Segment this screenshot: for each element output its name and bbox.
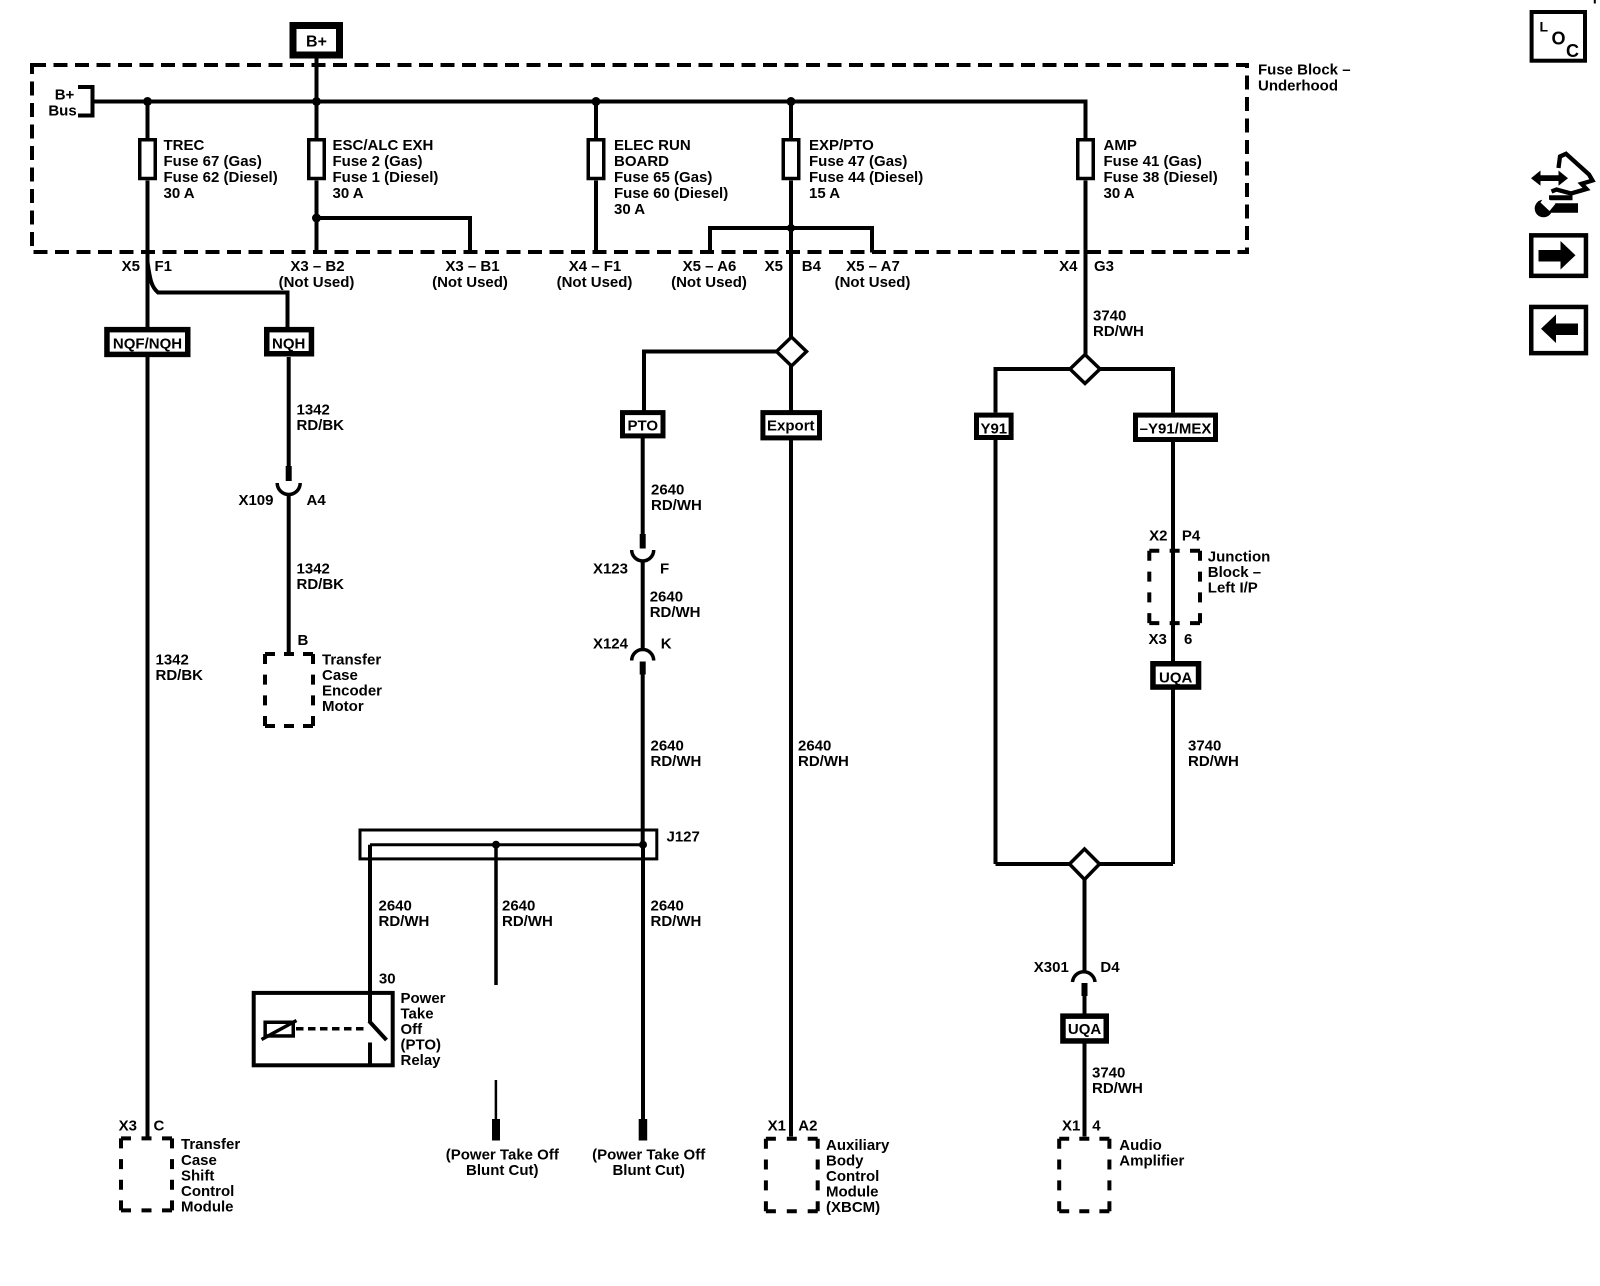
svg-text:(Not Used): (Not Used) <box>671 274 747 291</box>
svg-text:3740: 3740 <box>1092 1065 1125 1082</box>
svg-text:RD/WH: RD/WH <box>1188 753 1239 770</box>
svg-text:Auxiliary: Auxiliary <box>826 1137 890 1154</box>
svg-text:F: F <box>660 561 669 578</box>
svg-text:Export: Export <box>767 418 815 435</box>
svg-text:RD/WH: RD/WH <box>379 913 430 930</box>
svg-text:Shift: Shift <box>181 1167 214 1184</box>
svg-text:RD/WH: RD/WH <box>1092 1080 1143 1097</box>
svg-text:Relay: Relay <box>401 1052 442 1069</box>
svg-text:Fuse Block –: Fuse Block – <box>1258 62 1351 79</box>
svg-text:(Not Used): (Not Used) <box>557 274 633 291</box>
svg-text:J127: J127 <box>667 829 700 846</box>
svg-text:Control: Control <box>826 1168 879 1185</box>
svg-text:2640: 2640 <box>651 898 684 915</box>
svg-text:A2: A2 <box>798 1118 817 1135</box>
svg-text:Case: Case <box>322 667 358 684</box>
svg-text:Fuse 65 (Gas): Fuse 65 (Gas) <box>614 169 712 186</box>
svg-text:X124: X124 <box>593 636 629 653</box>
svg-text:4: 4 <box>1092 1118 1101 1135</box>
svg-text:6: 6 <box>1184 631 1192 648</box>
svg-text:(Not Used): (Not Used) <box>835 274 911 291</box>
svg-text:X4: X4 <box>1059 258 1078 275</box>
svg-text:RD/WH: RD/WH <box>502 913 553 930</box>
svg-text:Blunt Cut): Blunt Cut) <box>466 1162 538 1179</box>
svg-text:A4: A4 <box>307 492 327 509</box>
svg-text:Amplifier: Amplifier <box>1119 1153 1184 1170</box>
svg-text:X2: X2 <box>1149 528 1167 545</box>
svg-text:NQF/NQH: NQF/NQH <box>113 336 182 353</box>
svg-text:RD/WH: RD/WH <box>651 497 702 514</box>
svg-text:ELEC RUN: ELEC RUN <box>614 137 691 154</box>
svg-text:L: L <box>1540 19 1549 35</box>
svg-text:UQA: UQA <box>1068 1021 1102 1038</box>
svg-text:PTO: PTO <box>628 418 659 435</box>
svg-text:P4: P4 <box>1182 528 1201 545</box>
svg-text:RD/BK: RD/BK <box>297 417 345 434</box>
svg-text:(PTO): (PTO) <box>401 1037 442 1054</box>
svg-text:Control: Control <box>181 1183 234 1200</box>
svg-text:BOARD: BOARD <box>614 153 669 170</box>
svg-text:Fuse 67 (Gas): Fuse 67 (Gas) <box>164 153 262 170</box>
svg-text:X3: X3 <box>1148 631 1166 648</box>
svg-text:30 A: 30 A <box>333 185 364 202</box>
svg-text:UQA: UQA <box>1159 670 1193 687</box>
svg-text:NQH: NQH <box>272 336 305 353</box>
svg-text:Fuse 44 (Diesel): Fuse 44 (Diesel) <box>809 169 923 186</box>
svg-text:30 A: 30 A <box>1104 185 1135 202</box>
svg-text:RD/WH: RD/WH <box>651 753 702 770</box>
svg-text:Transfer: Transfer <box>181 1136 240 1153</box>
svg-text:Y91: Y91 <box>980 421 1007 438</box>
svg-text:Motor: Motor <box>322 698 364 715</box>
svg-text:Case: Case <box>181 1152 217 1169</box>
svg-text:X301: X301 <box>1034 959 1069 976</box>
svg-text:Audio: Audio <box>1119 1137 1162 1154</box>
svg-text:1342: 1342 <box>297 561 330 578</box>
svg-text:30 A: 30 A <box>614 201 645 218</box>
svg-text:(XBCM): (XBCM) <box>826 1199 880 1216</box>
svg-text:2640: 2640 <box>651 482 684 499</box>
svg-text:D4: D4 <box>1100 959 1120 976</box>
svg-text:X5 – A7: X5 – A7 <box>846 258 900 275</box>
svg-text:3740: 3740 <box>1093 308 1126 325</box>
svg-text:1342: 1342 <box>156 652 189 669</box>
svg-text:RD/WH: RD/WH <box>651 913 702 930</box>
svg-text:Fuse 60 (Diesel): Fuse 60 (Diesel) <box>614 185 728 202</box>
svg-text:(Not Used): (Not Used) <box>279 274 355 291</box>
svg-text:(Not Used): (Not Used) <box>432 274 508 291</box>
svg-text:B: B <box>298 632 309 649</box>
svg-text:Fuse 41 (Gas): Fuse 41 (Gas) <box>1104 153 1202 170</box>
svg-text:Take: Take <box>401 1006 434 1023</box>
svg-text:X1: X1 <box>768 1118 786 1135</box>
svg-text:G3: G3 <box>1094 258 1114 275</box>
svg-text:RD/WH: RD/WH <box>1093 323 1144 340</box>
svg-text:Fuse 1 (Diesel): Fuse 1 (Diesel) <box>333 169 439 186</box>
svg-text:3740: 3740 <box>1188 738 1221 755</box>
svg-text:Junction: Junction <box>1208 548 1271 565</box>
svg-text:RD/BK: RD/BK <box>297 576 345 593</box>
svg-text:X109: X109 <box>238 492 273 509</box>
svg-text:Power: Power <box>401 990 446 1007</box>
svg-text:Left I/P: Left I/P <box>1208 579 1258 596</box>
svg-text:Module: Module <box>181 1199 234 1216</box>
svg-text:Fuse 47 (Gas): Fuse 47 (Gas) <box>809 153 907 170</box>
svg-text:F1: F1 <box>155 258 173 275</box>
svg-text:2640: 2640 <box>650 589 683 606</box>
svg-text:30: 30 <box>379 971 396 988</box>
svg-text:2640: 2640 <box>379 898 412 915</box>
svg-text:1342: 1342 <box>297 402 330 419</box>
svg-text:AMP: AMP <box>1104 137 1137 154</box>
svg-text:Encoder: Encoder <box>322 683 382 700</box>
svg-text:X1: X1 <box>1062 1118 1080 1135</box>
svg-text:X5: X5 <box>765 258 783 275</box>
svg-text:X123: X123 <box>593 561 628 578</box>
svg-text:C: C <box>1566 41 1579 61</box>
svg-text:EXP/PTO: EXP/PTO <box>809 137 874 154</box>
svg-text:Bus: Bus <box>48 103 76 120</box>
svg-text:(Power Take Off: (Power Take Off <box>592 1147 706 1164</box>
svg-text:B4: B4 <box>802 258 822 275</box>
svg-text:Block –: Block – <box>1208 564 1261 581</box>
svg-text:2640: 2640 <box>798 738 831 755</box>
svg-text:15 A: 15 A <box>809 185 840 202</box>
svg-text:2640: 2640 <box>651 738 684 755</box>
svg-text:Fuse 2 (Gas): Fuse 2 (Gas) <box>333 153 423 170</box>
svg-text:ESC/ALC EXH: ESC/ALC EXH <box>333 137 434 154</box>
svg-text:Fuse 62 (Diesel): Fuse 62 (Diesel) <box>164 169 278 186</box>
svg-text:(Power Take Off: (Power Take Off <box>446 1147 560 1164</box>
svg-text:2640: 2640 <box>502 898 535 915</box>
svg-text:X3 – B1: X3 – B1 <box>445 258 499 275</box>
svg-text:Transfer: Transfer <box>322 652 381 669</box>
svg-text:X5 – A6: X5 – A6 <box>683 258 737 275</box>
svg-text:Underhood: Underhood <box>1258 78 1338 95</box>
svg-text:Fuse 38 (Diesel): Fuse 38 (Diesel) <box>1104 169 1218 186</box>
svg-text:X3: X3 <box>119 1118 137 1135</box>
svg-text:Off: Off <box>401 1021 424 1038</box>
svg-text:TREC: TREC <box>164 137 205 154</box>
svg-text:X5: X5 <box>122 258 140 275</box>
svg-text:30 A: 30 A <box>164 185 195 202</box>
svg-text:B+: B+ <box>306 34 327 51</box>
svg-text:–Y91/MEX: –Y91/MEX <box>1140 421 1212 438</box>
svg-text:RD/WH: RD/WH <box>798 753 849 770</box>
svg-text:O: O <box>1552 29 1566 49</box>
svg-text:Module: Module <box>826 1184 879 1201</box>
svg-text:C: C <box>154 1118 165 1135</box>
svg-text:X4 – F1: X4 – F1 <box>569 258 622 275</box>
svg-text:RD/WH: RD/WH <box>650 604 701 621</box>
svg-text:Blunt Cut): Blunt Cut) <box>612 1162 684 1179</box>
svg-text:K: K <box>661 636 672 653</box>
svg-text:B+: B+ <box>55 87 75 104</box>
svg-text:RD/BK: RD/BK <box>156 667 204 684</box>
svg-text:Body: Body <box>826 1153 864 1170</box>
svg-text:X3 – B2: X3 – B2 <box>290 258 344 275</box>
